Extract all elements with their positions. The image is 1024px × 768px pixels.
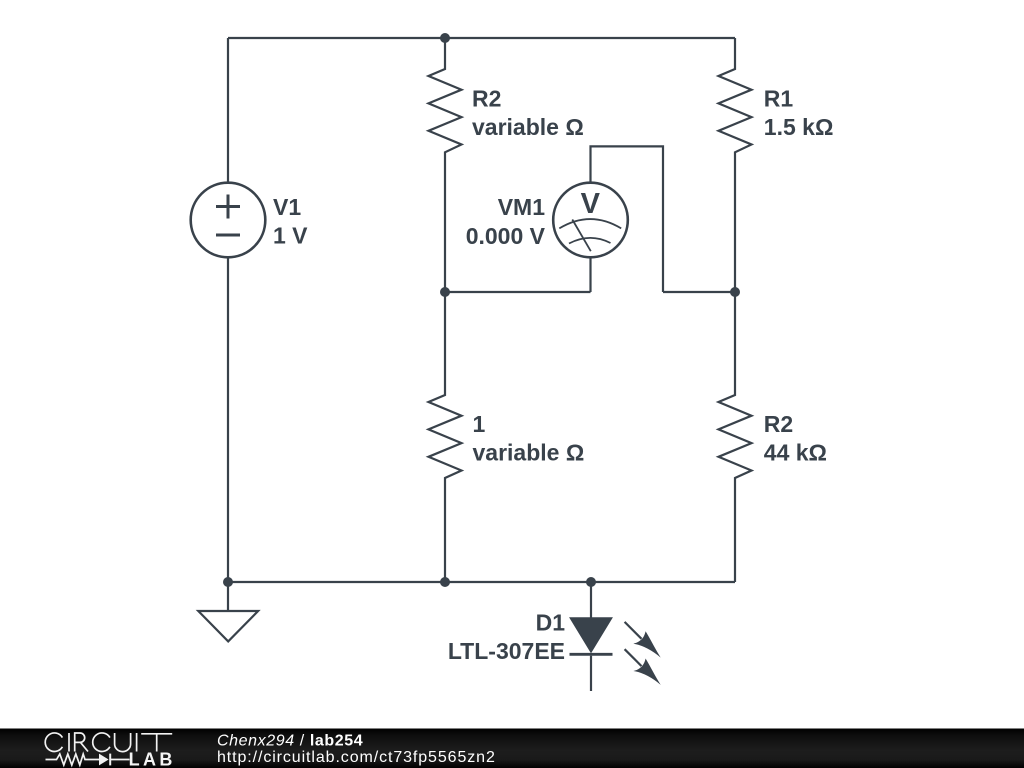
CircuitLab logo resistor-diode squiggle xyxy=(46,754,130,766)
node junction top rail / R2 xyxy=(440,33,450,43)
svg-text:VM1: VM1 xyxy=(498,194,546,220)
resistor R2 (top left branch) xyxy=(429,38,462,292)
svg-text:variable Ω: variable Ω xyxy=(472,114,584,140)
resistor R2 (bottom right branch, 44k) xyxy=(719,292,752,582)
wire left rail lower xyxy=(227,257,229,582)
LED arrow 2 xyxy=(625,649,642,666)
node junction A (R2 bottom / voltmeter -) xyxy=(440,287,450,297)
node junction ground rail / D1 xyxy=(586,577,596,587)
LED D1 xyxy=(570,582,661,691)
svg-text:variable Ω: variable Ω xyxy=(473,440,585,466)
svg-text:D1: D1 xyxy=(536,610,566,636)
svg-text:http://circuitlab.com/ct73fp55: http://circuitlab.com/ct73fp5565zn2 xyxy=(217,749,496,766)
svg-text:V1: V1 xyxy=(273,194,301,220)
wire bottom rail xyxy=(228,581,735,583)
svg-text:V: V xyxy=(581,188,601,220)
CircuitLab logo CIRCUIT text xyxy=(45,733,172,752)
node junction ground rail left xyxy=(223,577,233,587)
svg-text:44 kΩ: 44 kΩ xyxy=(764,440,827,466)
ground xyxy=(198,582,258,641)
svg-text:R1: R1 xyxy=(764,86,794,112)
wire mid right (voltmeter to node B) xyxy=(663,291,735,293)
svg-text:R2: R2 xyxy=(764,411,793,437)
resistor 1 (bottom left branch, variable) xyxy=(429,292,462,582)
wire left rail upper xyxy=(227,38,229,183)
voltmeter VM1 xyxy=(553,146,663,292)
svg-text:1 V: 1 V xyxy=(273,222,308,248)
LED arrow 1 xyxy=(625,622,642,639)
resistor R1 (top right branch) xyxy=(719,38,752,292)
svg-text:0.000 V: 0.000 V xyxy=(466,223,546,249)
svg-text:LTL-307EE: LTL-307EE xyxy=(448,638,565,664)
node junction B (R1 bottom / voltmeter +) xyxy=(730,287,740,297)
wire top rail xyxy=(228,37,735,39)
svg-text:1.5 kΩ: 1.5 kΩ xyxy=(764,114,834,140)
wire mid left (node A to voltmeter) xyxy=(445,291,591,293)
svg-text:LAB: LAB xyxy=(129,750,176,768)
voltage source V1 xyxy=(191,183,266,258)
svg-text:1: 1 xyxy=(473,411,486,437)
svg-text:Chenx294 / lab254: Chenx294 / lab254 xyxy=(217,733,363,750)
node junction ground rail center xyxy=(440,577,450,587)
svg-text:R2: R2 xyxy=(472,86,501,112)
